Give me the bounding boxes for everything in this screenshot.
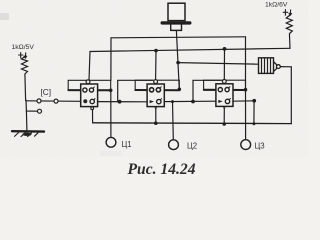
- module A1 inner contact bottom-left: [83, 99, 87, 103]
- svg-text:Рис. 14.24: Рис. 14.24: [128, 161, 196, 178]
- module A2 socket plate: [135, 80, 179, 90]
- svg-text:1kΩ/5V: 1kΩ/5V: [12, 44, 35, 51]
- module A2 inner contact top-right: [156, 88, 160, 92]
- module A1 inner contact top-right: [89, 88, 93, 92]
- wire B right end up to resistor R2: [289, 36, 292, 49]
- lamp L1: [106, 137, 116, 147]
- resistor R1 zigzag: [22, 57, 28, 75]
- junction dot SB1 wire / wire C: [176, 61, 180, 65]
- junction dot lamp 2 stem: [171, 100, 174, 103]
- faint smudges: [100, 151, 122, 156]
- module A1 inner contact top-left: [83, 88, 87, 92]
- wire node C horizontal to module A1: [26, 100, 81, 103]
- module A2 inner contact bottom-left: [150, 100, 154, 103]
- junction dot on socket A2 right: [178, 88, 182, 92]
- wire segment3 down to bus: [253, 101, 255, 124]
- svg-text:Ц3: Ц3: [255, 141, 265, 150]
- wire B riser to module A1 top pin: [89, 52, 90, 81]
- module A3 inner contact bottom-right: [225, 99, 229, 103]
- junction dot socket A1 right / lamp stem: [109, 89, 113, 93]
- coupling wire stage2 to A3 top pin: [193, 80, 221, 101]
- wire A2 bottom pin to bus: [155, 109, 157, 123]
- wire riser to module A2 top pin: [155, 51, 157, 80]
- pushbutton SB1 cap: [168, 3, 185, 20]
- module A1 inner contact bottom-right: [90, 99, 94, 103]
- lamp L3: [241, 140, 251, 150]
- junction dot wire B / A2 pin: [154, 49, 158, 53]
- module A3 inner contact top-left: [218, 88, 222, 92]
- resistor R2 zigzag: [286, 16, 292, 36]
- junction dot on socket A3 right: [244, 88, 248, 92]
- earphone plug X1 body: [259, 58, 274, 74]
- ground: [12, 131, 44, 136]
- lamp L2 stem: [172, 102, 175, 140]
- module A1 bottom pin: [91, 107, 94, 110]
- module A3 top pin: [222, 80, 226, 84]
- wire riser to module A3 top pin: [223, 49, 225, 81]
- junction dot coupling 1: [118, 100, 122, 104]
- pushbutton SB1 contact bar: [171, 29, 182, 31]
- module A3 inner contact bottom-left: [218, 100, 222, 103]
- wire C to earphone plug X1: [178, 63, 258, 65]
- module A3 bottom pin: [223, 107, 226, 110]
- junction dot bus / A2 pin: [154, 121, 158, 125]
- wire A top horizontal: [111, 37, 246, 38]
- svg-text:[C]: [C]: [41, 88, 51, 97]
- bottom bus wire: [93, 122, 292, 125]
- pushbutton SB1 legs: [171, 25, 182, 31]
- lamp L2: [169, 140, 179, 150]
- lamp L1 stem: [110, 90, 112, 137]
- connector contact circle 2: [54, 99, 58, 103]
- pushbutton SB1 base plate: [162, 21, 190, 24]
- lamp arrows on R2: [283, 10, 291, 16]
- wire A1 bottom pin to bus: [92, 110, 94, 123]
- svg-text:1kΩ/6V: 1kΩ/6V: [265, 2, 288, 9]
- wire from SB1 down to socket A2 right: [176, 31, 179, 90]
- junction dot coupling 2: [191, 100, 195, 104]
- wire stub to connector circle: [26, 100, 38, 111]
- wire down to ground: [25, 111, 28, 130]
- module A1 top pin: [86, 80, 90, 84]
- wire A left riser to socket A1: [110, 38, 112, 81]
- wire R1 down to node C: [24, 74, 27, 100]
- svg-text:Ц1: Ц1: [122, 140, 132, 149]
- module A2 inner contact top-left: [150, 88, 154, 92]
- paper background: [0, 0, 308, 181]
- module A2 box: [147, 84, 164, 107]
- earphone plug X1 tip ball: [277, 65, 281, 69]
- wire A right riser to socket A3: [245, 37, 247, 90]
- wire segment A1 right to A2 left: [98, 101, 148, 103]
- coupling wire stage1 to A2 top pin: [118, 80, 153, 101]
- module A2 inner contact bottom-right: [157, 99, 161, 103]
- earphone plug X1 cone: [274, 62, 277, 72]
- junction dot wire B / A3 pin: [223, 47, 227, 51]
- module A3 socket plate: [204, 80, 246, 90]
- lamp L3 stem: [245, 90, 247, 140]
- module A3 box: [216, 84, 233, 107]
- junction dot segment 3: [252, 99, 256, 103]
- wire plug tip to right riser: [280, 66, 291, 68]
- bus right riser to plug X1: [290, 67, 292, 124]
- wire segment A2 right to A3 left: [164, 100, 216, 102]
- module A2 top pin: [154, 80, 158, 84]
- module A3 inner contact top-right: [225, 88, 229, 92]
- connector contact circle 1: [37, 99, 41, 103]
- module A1 socket plate: [68, 80, 111, 90]
- svg-text:Ц2: Ц2: [187, 142, 197, 151]
- module A1 box: [81, 84, 98, 107]
- junction dot bus / segment3: [252, 122, 255, 125]
- module A2 bottom pin: [155, 108, 158, 111]
- wire B supply horizontal: [90, 48, 290, 51]
- wire A3 bottom pin to bus: [223, 109, 225, 124]
- junction dot bus / A3 pin: [222, 122, 226, 126]
- wire segment A3 right: [233, 100, 254, 102]
- lamp arrows on R1: [19, 53, 27, 59]
